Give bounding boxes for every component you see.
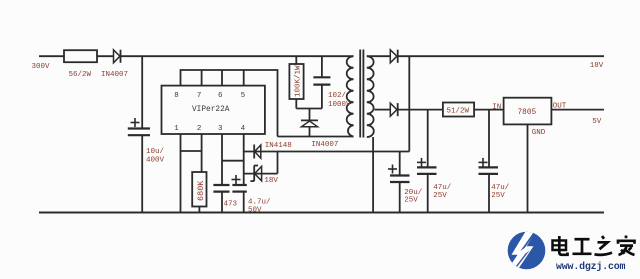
diode D5 5V rectifier: [390, 103, 397, 116]
wire: C6 bottom to ground rail: [427, 174, 429, 213]
capacitor C2 473 plates: [213, 184, 229, 186]
wire: cap C5 stub from VDD/18V line: [399, 152, 401, 176]
diode D4 18V rectifier: [390, 50, 397, 63]
wire: pin3 stub down to cap 473: [221, 134, 223, 185]
wire: 18V feed vertical down crossing 5V line: [408, 56, 410, 151]
diode D2 IN4148 pointing left on VDD line: [253, 145, 255, 159]
svg-text:IN4007: IN4007: [311, 141, 338, 149]
wire: pin4 VDD column down to cap C3: [243, 134, 245, 185]
glyph dian: [553, 241, 567, 251]
capacitor C4 102/1000V plates: [313, 76, 330, 78]
wire: pin1 stub down to ground rail: [180, 134, 182, 213]
transformer T1 core lines: [359, 50, 361, 138]
svg-text:18V: 18V: [590, 62, 604, 70]
node: plus sign of C3: [232, 179, 241, 181]
svg-text:300V: 300V: [32, 63, 51, 71]
glyph zhi: [602, 236, 604, 239]
capacitor C1 10u/400V plates: [128, 127, 150, 129]
wire: C7 bottom to ground rail: [488, 174, 490, 213]
svg-text:5V: 5V: [592, 118, 602, 126]
capacitor C5 20u/25V plates: [390, 174, 410, 176]
capacitor C6 47u/25V plates: [417, 166, 437, 168]
resistor R4 51/2W box: [443, 103, 474, 117]
resistor R2 680K box vertical: [192, 172, 206, 207]
wire: cap C7 stub: [488, 110, 490, 168]
svg-text:GND: GND: [532, 129, 546, 137]
wire: AC input top rail 300V: [39, 55, 64, 57]
svg-text:1: 1: [174, 125, 179, 133]
wire: pin2 stub down: [201, 134, 203, 172]
wire: VDD line pin4 to 18V feed corner: [244, 151, 410, 153]
wire: bottom ground rail: [39, 212, 604, 214]
diode D1 IN4007 input: [114, 50, 120, 63]
IC U1 VIPer22A: [162, 86, 265, 134]
wire: zener line from pin4 column: [244, 173, 278, 175]
diode Z1 zener 18V pointing left: [253, 166, 255, 182]
svg-text:4: 4: [241, 125, 246, 133]
node: plus sign of C1: [131, 122, 140, 124]
diode D3 IN4007 clamp pointing up: [301, 119, 318, 121]
svg-text:10u/: 10u/: [146, 148, 165, 156]
svg-text:51/2W: 51/2W: [447, 108, 470, 116]
transformer T1 primary winding: [347, 56, 354, 136]
wire: drain comb bus over pins 8,7,6,5: [181, 70, 278, 137]
wire: 473 bottom to ground rail: [221, 192, 223, 213]
svg-text:47u/: 47u/: [491, 184, 510, 192]
wire: top HV rail from diode to transformer primary top: [121, 55, 354, 57]
capacitor C4 102/1000V top stub: [321, 56, 323, 77]
resistor R 56/2W box: [64, 50, 97, 62]
svg-text:680K: 680K: [196, 180, 206, 201]
svg-text:56/2W: 56/2W: [69, 71, 92, 79]
wire: secondary top to 18V rectifier: [367, 55, 391, 57]
svg-text:25V: 25V: [433, 192, 447, 200]
svg-text:18V: 18V: [264, 177, 278, 185]
node: plus sign of C5: [388, 168, 397, 170]
wire: 100K bottom stub: [295, 99, 297, 109]
wire: pin5 stub: [243, 70, 245, 86]
wire: clamp diode anode to primary bottom line: [309, 127, 311, 137]
wire: pin3 link to VDD column: [222, 160, 244, 162]
wire: R4 to 7805 IN: [474, 109, 504, 111]
wire: 7805 OUT to 5V terminal: [551, 109, 604, 111]
wire: pin6 stub: [221, 70, 223, 86]
wire: snubber bottom link: [296, 108, 322, 110]
svg-text:100K/1W: 100K/1W: [295, 65, 303, 97]
wire: C1 bottom to ground rail: [141, 135, 143, 212]
wire: vertical drop to bulk cap C1: [141, 56, 143, 128]
capacitor C7 47u/25V plates: [479, 166, 499, 168]
wire: resistor to diode: [97, 55, 114, 57]
glyph jia: [625, 236, 628, 239]
svg-text:473: 473: [224, 201, 238, 209]
svg-text:4.7u/: 4.7u/: [248, 199, 271, 207]
wire: snubber mid stub to clamp diode: [309, 109, 311, 121]
svg-text:47u/: 47u/: [433, 184, 452, 192]
wire: secondary bottom down to ground rail: [372, 137, 374, 213]
capacitor C3 4.7u/50V plates: [232, 184, 246, 186]
svg-text:7805: 7805: [518, 109, 537, 117]
svg-text:VIPer22A: VIPer22A: [192, 106, 230, 114]
wire: 680K bottom stub to ground: [198, 207, 200, 213]
wire: pin7 stub: [201, 70, 203, 86]
svg-text:www.dgzj.com: www.dgzj.com: [556, 261, 626, 272]
resistor R3 100K/1W snubber box vertical: [289, 64, 303, 99]
svg-text:IN4148: IN4148: [265, 142, 292, 150]
svg-text:IN4007: IN4007: [101, 71, 128, 79]
wire: C4 bottom stub: [321, 85, 323, 109]
svg-text:50V: 50V: [248, 207, 262, 215]
wire: secondary tap to 5V rectifier: [375, 109, 391, 111]
wire: cap C6 stub from 5V line: [427, 110, 429, 168]
wire: 7805 GND stub to ground rail: [527, 124, 529, 212]
wire: pin1-pin2 junction link: [181, 150, 202, 152]
svg-text:7: 7: [197, 92, 202, 100]
svg-text:102/: 102/: [328, 92, 347, 100]
wire: C3 bottom to ground rail: [243, 192, 245, 213]
node: plus sign of C7: [479, 161, 488, 163]
wire: zener line up to VDD line: [277, 152, 279, 174]
svg-text:2: 2: [197, 125, 202, 133]
transformer T1 secondary winding: [367, 56, 374, 137]
IC U2 7805 regulator: [504, 98, 552, 125]
svg-text:3: 3: [218, 125, 223, 133]
svg-text:1000V: 1000V: [328, 101, 351, 109]
wire: 100K top stub: [295, 56, 297, 64]
wire: primary bottom line from drain comb to primary: [278, 136, 354, 138]
node: plus sign of C6: [417, 161, 426, 163]
logo text dian gong zhi jia drawn as strokes: [550, 235, 640, 261]
svg-text:25V: 25V: [491, 192, 505, 200]
svg-text:6: 6: [218, 92, 223, 100]
svg-text:IN: IN: [492, 104, 501, 112]
wire: 5V line to series resistor: [398, 109, 443, 111]
wire: C5 bottom to ground rail: [399, 182, 401, 213]
svg-text:8: 8: [174, 92, 179, 100]
svg-text:5: 5: [241, 92, 246, 100]
wire: 18V rail to right: [398, 55, 604, 57]
svg-text:400V: 400V: [146, 157, 165, 165]
svg-text:OUT: OUT: [553, 103, 567, 111]
svg-text:25V: 25V: [404, 197, 418, 205]
glyph gong: [575, 238, 590, 241]
